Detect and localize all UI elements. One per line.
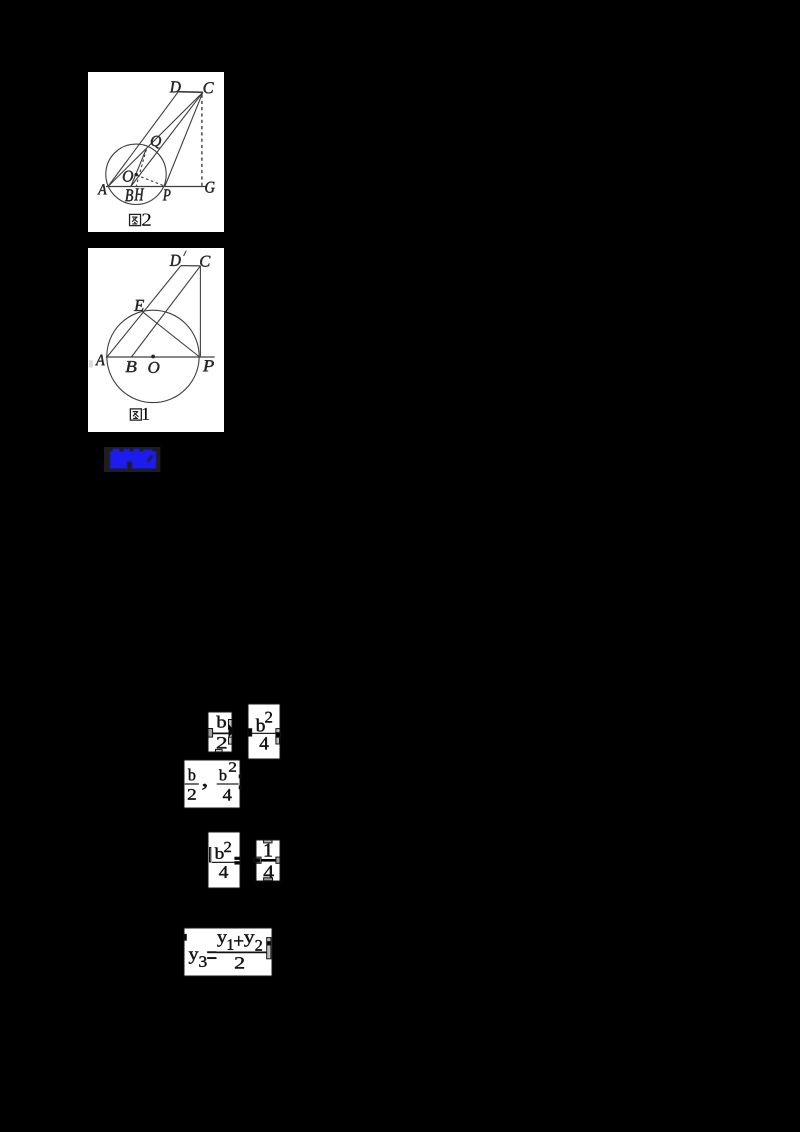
box2 4 (260, 737, 269, 749)
label H fig2 (134, 189, 144, 201)
line B-O-Q radius (fig2) (131, 149, 147, 187)
box6 num y2 (244, 934, 255, 946)
box5 4 (264, 866, 274, 879)
box6 num y1 (217, 934, 227, 946)
segment D-C (fig1) (181, 265, 201, 267)
box3 den2 (188, 789, 196, 799)
dashed line C-G (fig2) (201, 95, 203, 187)
box2 exp2 (265, 712, 272, 723)
dashed line O-P (fig2) (136, 175, 163, 186)
box1 fraction bar (212, 732, 229, 734)
box5 gray handles (264, 840, 272, 843)
label G fig2 (205, 182, 214, 193)
line A-D (fig2) (108, 92, 178, 187)
equation box 1: b/2 (208, 712, 234, 752)
box5 black left mark (254, 859, 260, 862)
label O fig1 (148, 362, 159, 373)
box4 equals sign (235, 857, 241, 859)
box1 2 (217, 737, 226, 748)
vertical line C-P (fig1) (199, 266, 201, 357)
box3 black edge dots (239, 775, 241, 778)
line B-C (fig2) (131, 92, 203, 186)
center dot O (fig1) (151, 355, 155, 359)
label A fig2 (97, 184, 106, 194)
box1 black cursor arrow (229, 725, 234, 738)
label D fig1 (170, 255, 181, 266)
label C fig1 (200, 256, 210, 267)
label P fig1 (203, 360, 214, 371)
line B-C (fig1) (131, 266, 200, 357)
box4 fraction bar (212, 861, 235, 863)
line P-C (fig2) (165, 92, 203, 186)
box1 gray handles (208, 729, 213, 738)
label A fig1 (95, 355, 105, 366)
box4 4 (219, 866, 228, 878)
circle O (fig1) (107, 310, 199, 402)
box5 1 (265, 844, 272, 857)
equation box 4: b^2/4 = (208, 832, 241, 888)
box3 exp2 (229, 762, 236, 771)
box3 fraction bar 2 (217, 783, 239, 785)
label C fig2 (204, 82, 214, 93)
box6 gray handle bar (267, 938, 271, 959)
box5 fraction bar (260, 859, 277, 862)
box6 plus (234, 936, 243, 946)
box3 b2 (219, 769, 227, 780)
box6 y3 y (189, 951, 199, 963)
equation box 6: y3=(y1+y2)/2 (184, 928, 272, 976)
label O fig2 (123, 171, 133, 182)
box3 fraction bar 1 (185, 783, 199, 785)
box4 exp2 (224, 842, 231, 852)
box3 comma (202, 784, 206, 790)
caption digit 2 fig2 (142, 213, 150, 225)
line A-C through Q (fig2) (108, 92, 203, 186)
gray handle on figure 1 left edge (89, 360, 93, 367)
box6 eq (207, 952, 216, 959)
box6 sub1 (228, 939, 234, 950)
equation box 3: b/2 , b^2/4 (184, 760, 241, 808)
box3 b1 (188, 769, 195, 781)
label D fig2 (170, 81, 181, 92)
wire baseline A-P extended (fig1) (106, 356, 215, 358)
label E fig1 (134, 300, 144, 311)
caption glyph tu (fig2) (130, 214, 141, 225)
box6 den 2 (235, 957, 244, 968)
blue tag dark notches (127, 455, 153, 470)
label P fig2 (163, 189, 171, 200)
label Q fig2 (151, 136, 161, 149)
figure 1 white panel (88, 248, 224, 432)
box2 fraction bar (251, 732, 277, 734)
blue tag glyph blob (110, 449, 156, 469)
label B fig1 (125, 361, 136, 372)
figure 2 white panel (88, 72, 224, 232)
dashed line Q-H (fig2) (136, 150, 146, 186)
box4 b (215, 847, 224, 858)
equation box 2: b^2/4 (248, 704, 281, 759)
chord E-P (fig1) (143, 312, 199, 357)
center dot O (fig2) (135, 173, 138, 176)
prime mark after D (fig1) (184, 251, 187, 256)
box2 b (256, 719, 265, 732)
box6 sub3 (199, 956, 206, 967)
line A-E-D (fig1) (107, 266, 181, 357)
caption glyph tu (fig1) (130, 409, 141, 420)
segment D-C (fig2) (178, 91, 203, 94)
wire baseline A-G (fig2) (106, 186, 207, 188)
box2 black marks (248, 729, 252, 736)
box6 sub2 (255, 940, 262, 950)
circle O (fig2) (106, 144, 166, 204)
equation box 5: 1/4 (254, 840, 280, 881)
caption digit 1 fig1 (143, 408, 150, 420)
blue tag dark backing (104, 447, 160, 472)
box1 b (216, 716, 226, 728)
box3 4 (223, 789, 232, 800)
box2 gray handles (276, 729, 280, 733)
box6 black dot (267, 942, 270, 945)
box6 fraction bar (216, 951, 266, 953)
label B fig2 (125, 189, 133, 201)
